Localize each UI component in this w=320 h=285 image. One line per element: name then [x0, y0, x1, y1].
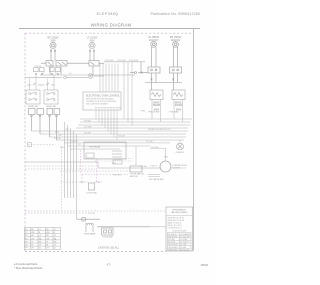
svg-text:BAKE: BAKE — [153, 101, 160, 104]
svg-text:09/04: 09/04 — [201, 263, 209, 267]
svg-text:SURF SW: SURF SW — [46, 106, 56, 108]
svg-text:BL: BL — [31, 245, 33, 247]
svg-text:VALUES (OHMS): VALUES (OHMS) — [171, 211, 188, 214]
svg-text:P11 SU1: P11 SU1 — [105, 60, 114, 62]
svg-text:L2: L2 — [54, 235, 56, 237]
svg-text:GY GRAY: GY GRAY — [180, 238, 188, 241]
svg-text:P12 SU2: P12 SU2 — [117, 60, 127, 62]
svg-text:DOOR SW: DOOR SW — [103, 236, 113, 238]
svg-text:P33 BK P34 WH P35 RD: P33 BK P34 WH P35 RD — [148, 129, 171, 131]
svg-text:3400W: 3400W — [175, 105, 183, 107]
svg-text:P13 SU3: P13 SU3 — [129, 60, 139, 62]
svg-text:YL: YL — [46, 241, 48, 243]
svg-text:P55: P55 — [164, 157, 169, 159]
svg-text:DL: DL — [54, 248, 56, 250]
svg-text:RR 1500W: RR 1500W — [170, 37, 182, 39]
svg-text:Publication No. 5995417280: Publication No. 5995417280 — [151, 12, 200, 16]
svg-text:WIRING DIAGRAM: WIRING DIAGRAM — [91, 23, 132, 28]
svg-text:OR ORANGE: OR ORANGE — [180, 233, 191, 236]
svg-text:P45: P45 — [60, 147, 64, 149]
svg-text:DL: DL — [39, 248, 41, 250]
svg-text:COLOR CODE: COLOR CODE — [172, 230, 187, 232]
svg-text:P3: P3 — [25, 235, 27, 237]
svg-text:P21 WH: P21 WH — [84, 126, 92, 128]
svg-text:240V: 240V — [89, 40, 95, 42]
svg-text:DOOR SW: DOOR SW — [86, 192, 96, 194]
svg-text:CONV MTR 17.5: CONV MTR 17.5 — [168, 227, 182, 229]
svg-text:BK BLACK: BK BLACK — [168, 233, 177, 236]
svg-text:2600W: 2600W — [153, 105, 161, 107]
svg-text:P32: P32 — [141, 110, 146, 112]
svg-text:ELECTRONIC OVEN CONTROL: ELECTRONIC OVEN CONTROL — [86, 95, 121, 97]
svg-text:P30 CONV: P30 CONV — [149, 111, 160, 113]
svg-text:P40 RELAY: P40 RELAY — [89, 145, 101, 148]
svg-text:P1 P2 P3 P4 P5 P6 P7 P8 P9: P1 P2 P3 P4 P5 P6 P7 P8 P9 — [95, 108, 122, 110]
svg-text:P60 DLB: P60 DLB — [113, 174, 122, 176]
svg-text:MOTOR: MOTOR — [130, 176, 138, 178]
svg-text:L1: L1 — [54, 229, 56, 231]
svg-text:OVEN LT: OVEN LT — [176, 152, 185, 154]
svg-text:P2: P2 — [25, 232, 27, 234]
svg-text:P20 BK: P20 BK — [84, 120, 91, 122]
svg-text:LR 1800W: LR 1800W — [148, 37, 160, 39]
svg-text:TN TAN: TN TAN — [180, 246, 187, 249]
svg-text:RW RD-WH: RW RD-WH — [180, 249, 190, 251]
svg-text:P4: P4 — [25, 238, 27, 240]
svg-text:P23 OR: P23 OR — [118, 135, 126, 137]
svg-text:L1: L1 — [39, 229, 41, 231]
svg-text:P42 RD: P42 RD — [54, 138, 62, 140]
svg-text:BL: BL — [46, 245, 48, 247]
svg-text:ELEF398Q: ELEF398Q — [97, 12, 119, 16]
svg-text:DOOR LATCH: DOOR LATCH — [130, 173, 144, 176]
svg-text:P41: P41 — [55, 132, 59, 134]
svg-text:P62: P62 — [97, 182, 101, 184]
svg-text:BROIL: BROIL — [175, 102, 183, 104]
svg-text:P7: P7 — [25, 248, 27, 250]
svg-text:SURF SW: SURF SW — [28, 106, 38, 108]
svg-text:P44 WH: P44 WH — [70, 141, 78, 143]
svg-text:P70 TB: P70 TB — [88, 213, 95, 215]
svg-text:DR LATCH SW: DR LATCH SW — [149, 178, 163, 181]
svg-text:ON CONTROL BOARD: ON CONTROL BOARD — [86, 102, 108, 105]
svg-text:P57 BK: P57 BK — [140, 166, 147, 168]
svg-text:* Non-Illustrated Parts: * Non-Illustrated Parts — [14, 266, 43, 270]
svg-text:P56 YL: P56 YL — [151, 166, 158, 168]
svg-text:P22 RD: P22 RD — [84, 132, 92, 134]
svg-text:MOTOR: MOTOR — [173, 167, 181, 169]
svg-text:P6: P6 — [25, 245, 27, 247]
svg-text:P51 BK: P51 BK — [146, 141, 153, 143]
svg-text:WB WH-BK: WB WH-BK — [168, 249, 178, 251]
svg-text:P1: P1 — [25, 229, 27, 231]
svg-text:LF 1200W: LF 1200W — [87, 38, 98, 40]
svg-text:OVEN LAMP: OVEN LAMP — [84, 233, 96, 236]
svg-text:P5: P5 — [25, 241, 27, 243]
svg-text:RESISTANCE: RESISTANCE — [173, 208, 187, 211]
svg-text:RF 2100W: RF 2100W — [48, 38, 60, 40]
svg-text:240V: 240V — [50, 40, 56, 42]
svg-text:L2: L2 — [39, 235, 41, 237]
svg-text:CAUTION: LBL ALL: CAUTION: LBL ALL — [98, 247, 120, 250]
svg-text:P31 FAN: P31 FAN — [170, 110, 179, 113]
svg-text:-17-: -17- — [106, 263, 111, 267]
svg-text:P61: P61 — [80, 182, 84, 184]
svg-text:YL: YL — [31, 241, 33, 243]
